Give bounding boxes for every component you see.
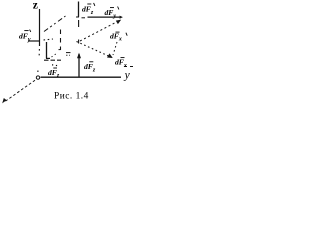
wire box dashed vertical mid	[60, 30, 62, 51]
axis z line	[39, 9, 41, 46]
axis y baseline	[41, 76, 122, 78]
wire dF'z top arrow tick	[76, 16, 79, 18]
arrowhead dF'x diagonal	[116, 20, 121, 25]
wire dF'y right arrow shaft	[88, 16, 121, 18]
wire box dashed bottom edge	[44, 59, 61, 61]
arrowhead dFz bottom	[77, 53, 81, 59]
wire dotted leader near dFx label	[113, 42, 117, 55]
wire dotted horizontal inside box	[44, 39, 54, 40]
wire dF'y right arrow dash	[82, 17, 86, 19]
svg-text:dFz: dFz	[84, 62, 96, 74]
wire dotted short diagonal bottom	[52, 53, 58, 57]
wire small dash pair	[66, 52, 71, 54]
axis z dashed lower part	[38, 49, 40, 58]
wire box front-left edge	[46, 42, 48, 58]
arrowhead axis x	[2, 98, 6, 103]
axis x dashed	[5, 80, 35, 101]
wire dFx dotted diagonal arrow shaft	[77, 42, 110, 57]
node O origin circle	[36, 76, 39, 79]
wire small dot pair	[66, 54, 70, 56]
wire box dashed vertical right	[78, 20, 80, 44]
wire dots right of dFx label	[124, 66, 134, 68]
svg-text:dFx: dFx	[115, 57, 127, 69]
wire dFy' arrow shaft	[28, 40, 40, 42]
wire dFz bottom arrow shaft	[78, 54, 80, 77]
wire dF'x dashed diagonal arrow shaft	[80, 22, 118, 42]
svg-text:dFx: dFx	[110, 31, 122, 42]
svg-text:y: y	[124, 70, 131, 82]
svg-text:z: z	[33, 0, 38, 11]
svg-text:dFz: dFz	[82, 4, 94, 16]
svg-text:Рис. 1.4: Рис. 1.4	[54, 92, 89, 102]
wire box top-left dashed diagonal	[44, 16, 66, 32]
arrowhead dF'y right	[120, 16, 123, 19]
arrowhead dFx diagonal	[107, 53, 113, 58]
svg-text:dFy: dFy	[19, 31, 31, 43]
wire dF'z top arrow shaft	[78, 2, 80, 17]
wire box dashed vertical mid foot	[59, 49, 61, 51]
svg-text:dFy: dFy	[105, 8, 117, 20]
wire box front-left edge foot	[46, 57, 50, 59]
